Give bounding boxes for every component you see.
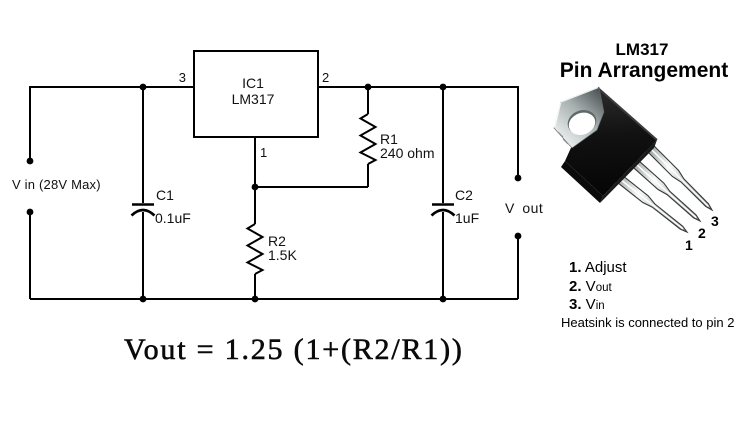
wire: right lower segment (Vout lower terminal to bottom rail) [517,239,519,299]
wire: left lower segment (Vin lower terminal to bottom rail) [29,214,31,299]
pin 2 leg of LM317 package [627,155,700,221]
wire: bottom rail [30,298,518,300]
svg-text:1: 1 [260,145,267,160]
wire: C1 top lead [142,87,144,203]
svg-text:Pin Arrangement: Pin Arrangement [560,59,728,82]
pin 1 leg of LM317 package [610,169,688,232]
LM317 package: tab lower-left step marks [558,132,568,144]
LM317 package: plastic body front face [565,88,657,196]
svg-text:Vout = 1.25 (1+(R2/R1)): Vout = 1.25 (1+(R2/R1)) [124,333,464,366]
terminal: Vout upper [515,175,522,182]
svg-text:3: 3 [711,213,719,229]
wire: top rail right segment (IC pin 2 to Vout corner) [318,87,518,175]
wire: R1 bottom lead [367,164,369,187]
wire: C2 top lead [442,87,444,203]
LM317 package: body bottom-right side face [600,140,657,203]
svg-text:V in (28V Max): V in (28V Max) [12,177,101,192]
pin 3 leg of LM317 package [643,141,712,210]
svg-text:2: 2 [322,70,329,85]
capacitor C1 plates [132,205,155,216]
LM317 package: body top bevel edge [598,88,657,140]
junction: C1 top node [140,84,147,91]
wire: C2 bottom lead [442,212,444,299]
terminal: Vout lower [515,233,522,240]
LM317 package: mounting hole [566,109,599,139]
svg-text:C2: C2 [455,187,473,203]
regulator IC1 box [194,51,318,137]
LM317 package: mounting hole rim [564,106,600,138]
svg-text:Vout: Vout [505,200,543,216]
LM317 package: tab left edge highlight [555,103,561,128]
LM317 package: tab top edge highlight [561,88,598,103]
LM317 package: body bottom-left shadow edge [561,161,603,203]
terminal: Vin lower [27,209,34,216]
junction: R1 top node [365,84,372,91]
svg-text:1uF: 1uF [455,210,479,226]
svg-text:240 ohm: 240 ohm [380,145,434,161]
wire: adjust node horizontal (pin 1 to R1 bottom) [255,186,368,188]
svg-text:LM317: LM317 [232,91,275,107]
junction: C1 bottom node [140,296,147,303]
LM317 package: metal tab [554,87,604,148]
junction: C2 bottom node [440,296,447,303]
wire: C1 bottom lead [142,212,144,299]
resistor R2 zigzag [248,224,263,274]
resistor R1 zigzag [361,114,376,164]
junction: adjust node [252,184,259,191]
svg-text:LM317: LM317 [616,40,669,59]
svg-text:1: 1 [685,237,693,253]
junction: R2 bottom node [252,296,259,303]
wire: R1 top lead [367,87,369,114]
wire: IC pin 1 stub [254,138,256,187]
wire: R2 top lead [254,187,256,224]
terminal: Vin upper [27,158,34,165]
svg-text:1.5K: 1.5K [268,247,297,263]
svg-text:Heatsink is connected to pin 2: Heatsink is connected to pin 2 [561,315,734,330]
svg-text:C1: C1 [156,187,174,203]
svg-text:3: 3 [179,70,186,85]
wire: R2 bottom lead [254,274,256,299]
svg-text:IC1: IC1 [242,75,264,91]
junction: C2 top node [440,84,447,91]
svg-text:2: 2 [698,225,706,241]
svg-text:1. Adjust: 1. Adjust [569,259,627,276]
svg-text:0.1uF: 0.1uF [155,210,191,226]
capacitor C2 plates [432,205,455,216]
wire: top rail left segment (Vin to IC pin 3) [30,87,194,161]
